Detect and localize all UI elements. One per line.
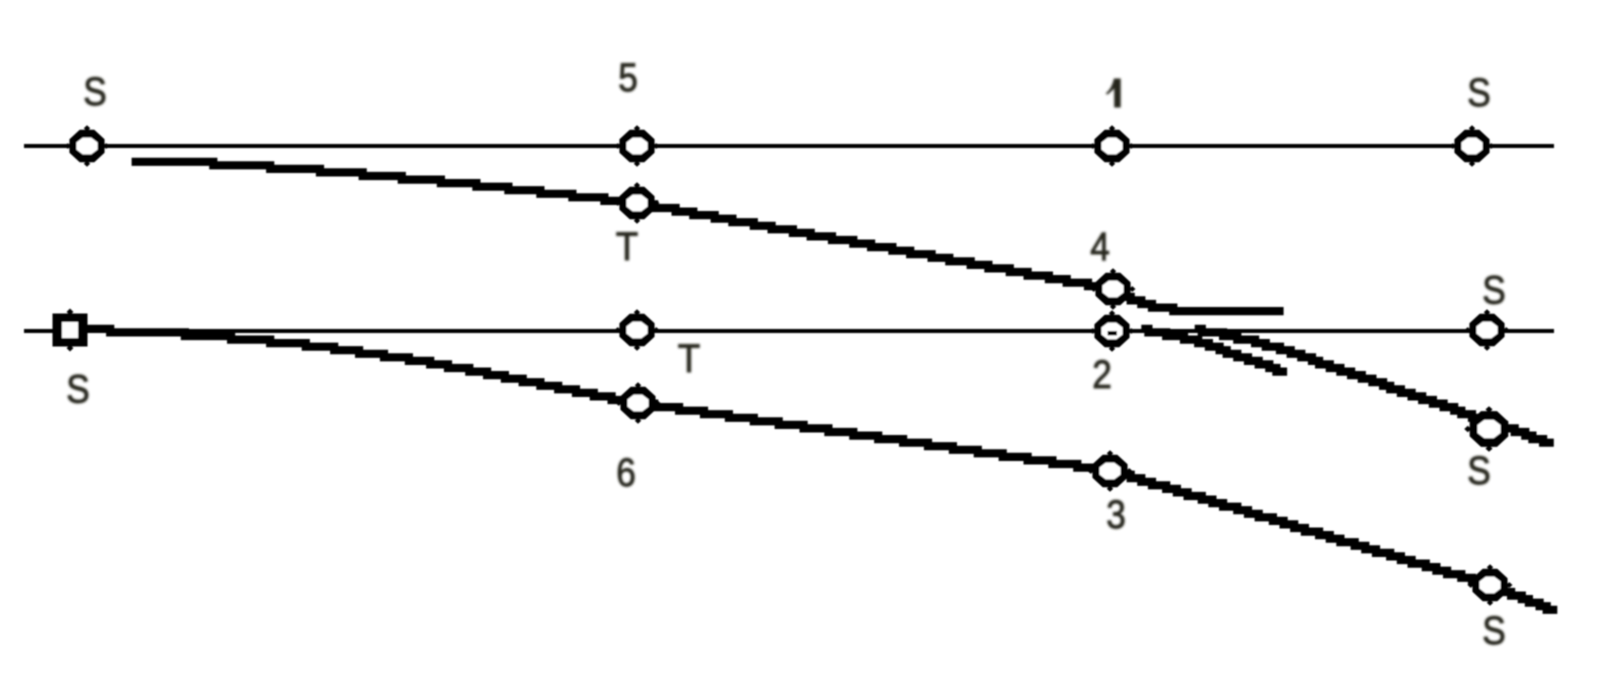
wire branch stub from node 2 <box>1141 329 1287 372</box>
svg-text:S: S <box>1467 448 1490 493</box>
label S left lower <box>66 366 89 411</box>
wire track A <box>24 144 1554 148</box>
svg-text:S: S <box>66 366 89 411</box>
label S top-left <box>83 69 106 114</box>
svg-text:6: 6 <box>616 450 636 495</box>
node 2 <box>1090 310 1135 351</box>
wire siding lower diagonal <box>85 329 1557 610</box>
wire track B <box>24 329 1554 333</box>
label S mid-right <box>1482 267 1505 312</box>
label S on upper branch <box>1467 448 1490 493</box>
node 3 <box>1088 450 1133 491</box>
label 5 <box>618 55 638 100</box>
node 1 <box>1090 125 1135 166</box>
svg-text:3: 3 <box>1106 492 1126 537</box>
label 3 <box>1106 492 1126 537</box>
node 6 <box>616 382 661 423</box>
label S top-right <box>1467 70 1490 115</box>
svg-text:T: T <box>678 337 700 382</box>
wire branch to lower-right signal <box>1195 329 1554 443</box>
label S bottom-right <box>1482 608 1505 653</box>
label 4 <box>1090 224 1110 269</box>
node 5 <box>615 125 660 166</box>
label 2 <box>1092 352 1112 397</box>
label 1 <box>1106 79 1121 108</box>
node S mid-right <box>1465 309 1510 350</box>
label T upper <box>616 225 638 270</box>
svg-text:4: 4 <box>1090 224 1110 269</box>
label 6 <box>616 450 636 495</box>
node S top-left <box>65 125 110 166</box>
node S top-right <box>1450 125 1495 166</box>
node 2 inner dash <box>1108 331 1118 336</box>
svg-text:2: 2 <box>1092 352 1112 397</box>
svg-text:S: S <box>1482 608 1505 653</box>
node S bottom-right <box>1468 564 1513 605</box>
node S left square <box>53 309 88 352</box>
node T on track B <box>615 309 660 350</box>
node S right on upper branch <box>1464 406 1514 452</box>
svg-text:S: S <box>1482 267 1505 312</box>
wire siding upper diagonal <box>132 162 1284 311</box>
label T lower <box>678 337 700 382</box>
svg-text:S: S <box>83 69 106 114</box>
svg-text:S: S <box>1467 70 1490 115</box>
node 4 <box>1091 268 1136 309</box>
svg-text:5: 5 <box>618 55 638 100</box>
svg-text:T: T <box>616 225 638 270</box>
node T upper diagonal <box>615 182 660 223</box>
